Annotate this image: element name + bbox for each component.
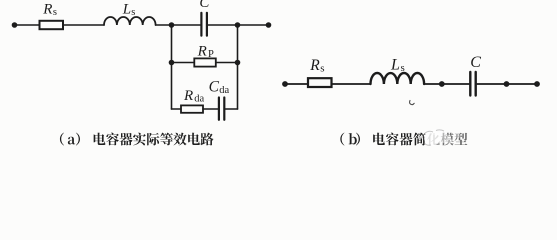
wire: terminal to Rs (b) xyxy=(285,83,308,85)
capacitor C of (a) xyxy=(201,13,207,36)
wire: node A to capacitor C xyxy=(172,24,201,26)
inductor Ls of (b) xyxy=(371,73,425,84)
wire: right vertical bus xyxy=(237,25,239,109)
wire: Rp to junction xyxy=(216,62,238,64)
svg-text:da: da xyxy=(194,94,204,105)
svg-text:L: L xyxy=(122,1,131,17)
node: right terminal of (a) xyxy=(266,22,272,28)
svg-text:L: L xyxy=(390,57,400,74)
svg-text:s: s xyxy=(320,63,324,75)
wire: to right terminal (b) xyxy=(507,83,538,85)
svg-text:s: s xyxy=(131,7,135,18)
resistor Rp xyxy=(194,58,216,66)
capacitor C of (b) xyxy=(470,72,475,96)
svg-text:R: R xyxy=(42,1,52,17)
wire: terminal to Rs xyxy=(15,24,40,26)
wire: bottom left to Rda xyxy=(172,108,182,110)
wire: Ls to node A xyxy=(156,24,172,26)
scan smudge: gray traces around degraded characters xyxy=(424,130,444,145)
node: left terminal of (b) xyxy=(282,81,288,87)
resistor Rs of (a) xyxy=(40,21,64,29)
wire: capacitor C to node B xyxy=(208,24,238,26)
svg-text:s: s xyxy=(401,62,405,74)
inductor Ls of (a) xyxy=(104,17,156,25)
svg-text:P: P xyxy=(208,49,214,60)
svg-text:da: da xyxy=(219,85,229,96)
wire: Cda to bottom right xyxy=(225,108,237,110)
node: junction after Ls (b) xyxy=(439,81,445,87)
node: left terminal of (a) xyxy=(12,22,18,28)
wire: junction to Rp xyxy=(172,62,195,64)
wire: Rs to Ls (b) xyxy=(332,83,371,85)
node B junction xyxy=(235,22,241,28)
caption (b) 电容器简化模型 xyxy=(340,133,467,146)
node A junction xyxy=(169,22,175,28)
wire: Ls to node xyxy=(424,83,442,85)
wire: capacitor to node (b) xyxy=(477,83,507,85)
svg-text:R: R xyxy=(309,57,320,74)
svg-text:R: R xyxy=(183,88,193,104)
scan smudge: white wash over caption (b) last characters xyxy=(424,129,461,146)
svg-text:C: C xyxy=(470,54,481,71)
wire: node to capacitor C (b) xyxy=(442,83,469,85)
capacitor Cda xyxy=(219,98,224,120)
svg-text:R: R xyxy=(197,43,207,59)
svg-text:s: s xyxy=(53,7,57,18)
node: right terminal of (b) xyxy=(534,81,540,87)
wire: node B to right terminal xyxy=(238,24,269,26)
scan artifact: small curl mark under (b) inductor xyxy=(410,101,415,105)
resistor Rs of (b) xyxy=(308,78,332,87)
resistor Rda xyxy=(181,105,203,112)
wire: left vertical bus xyxy=(171,25,173,109)
wire: Rs to Ls xyxy=(63,24,104,26)
node: junction before right terminal (b) xyxy=(504,81,510,87)
wire: Rda to Cda xyxy=(203,108,218,110)
node: Rp branch left junction xyxy=(169,60,175,66)
svg-text:C: C xyxy=(209,78,220,95)
svg-text:C: C xyxy=(199,0,210,11)
node: Rp branch right junction xyxy=(235,60,241,66)
caption (a) 电容器实际等效电路 xyxy=(60,133,214,146)
